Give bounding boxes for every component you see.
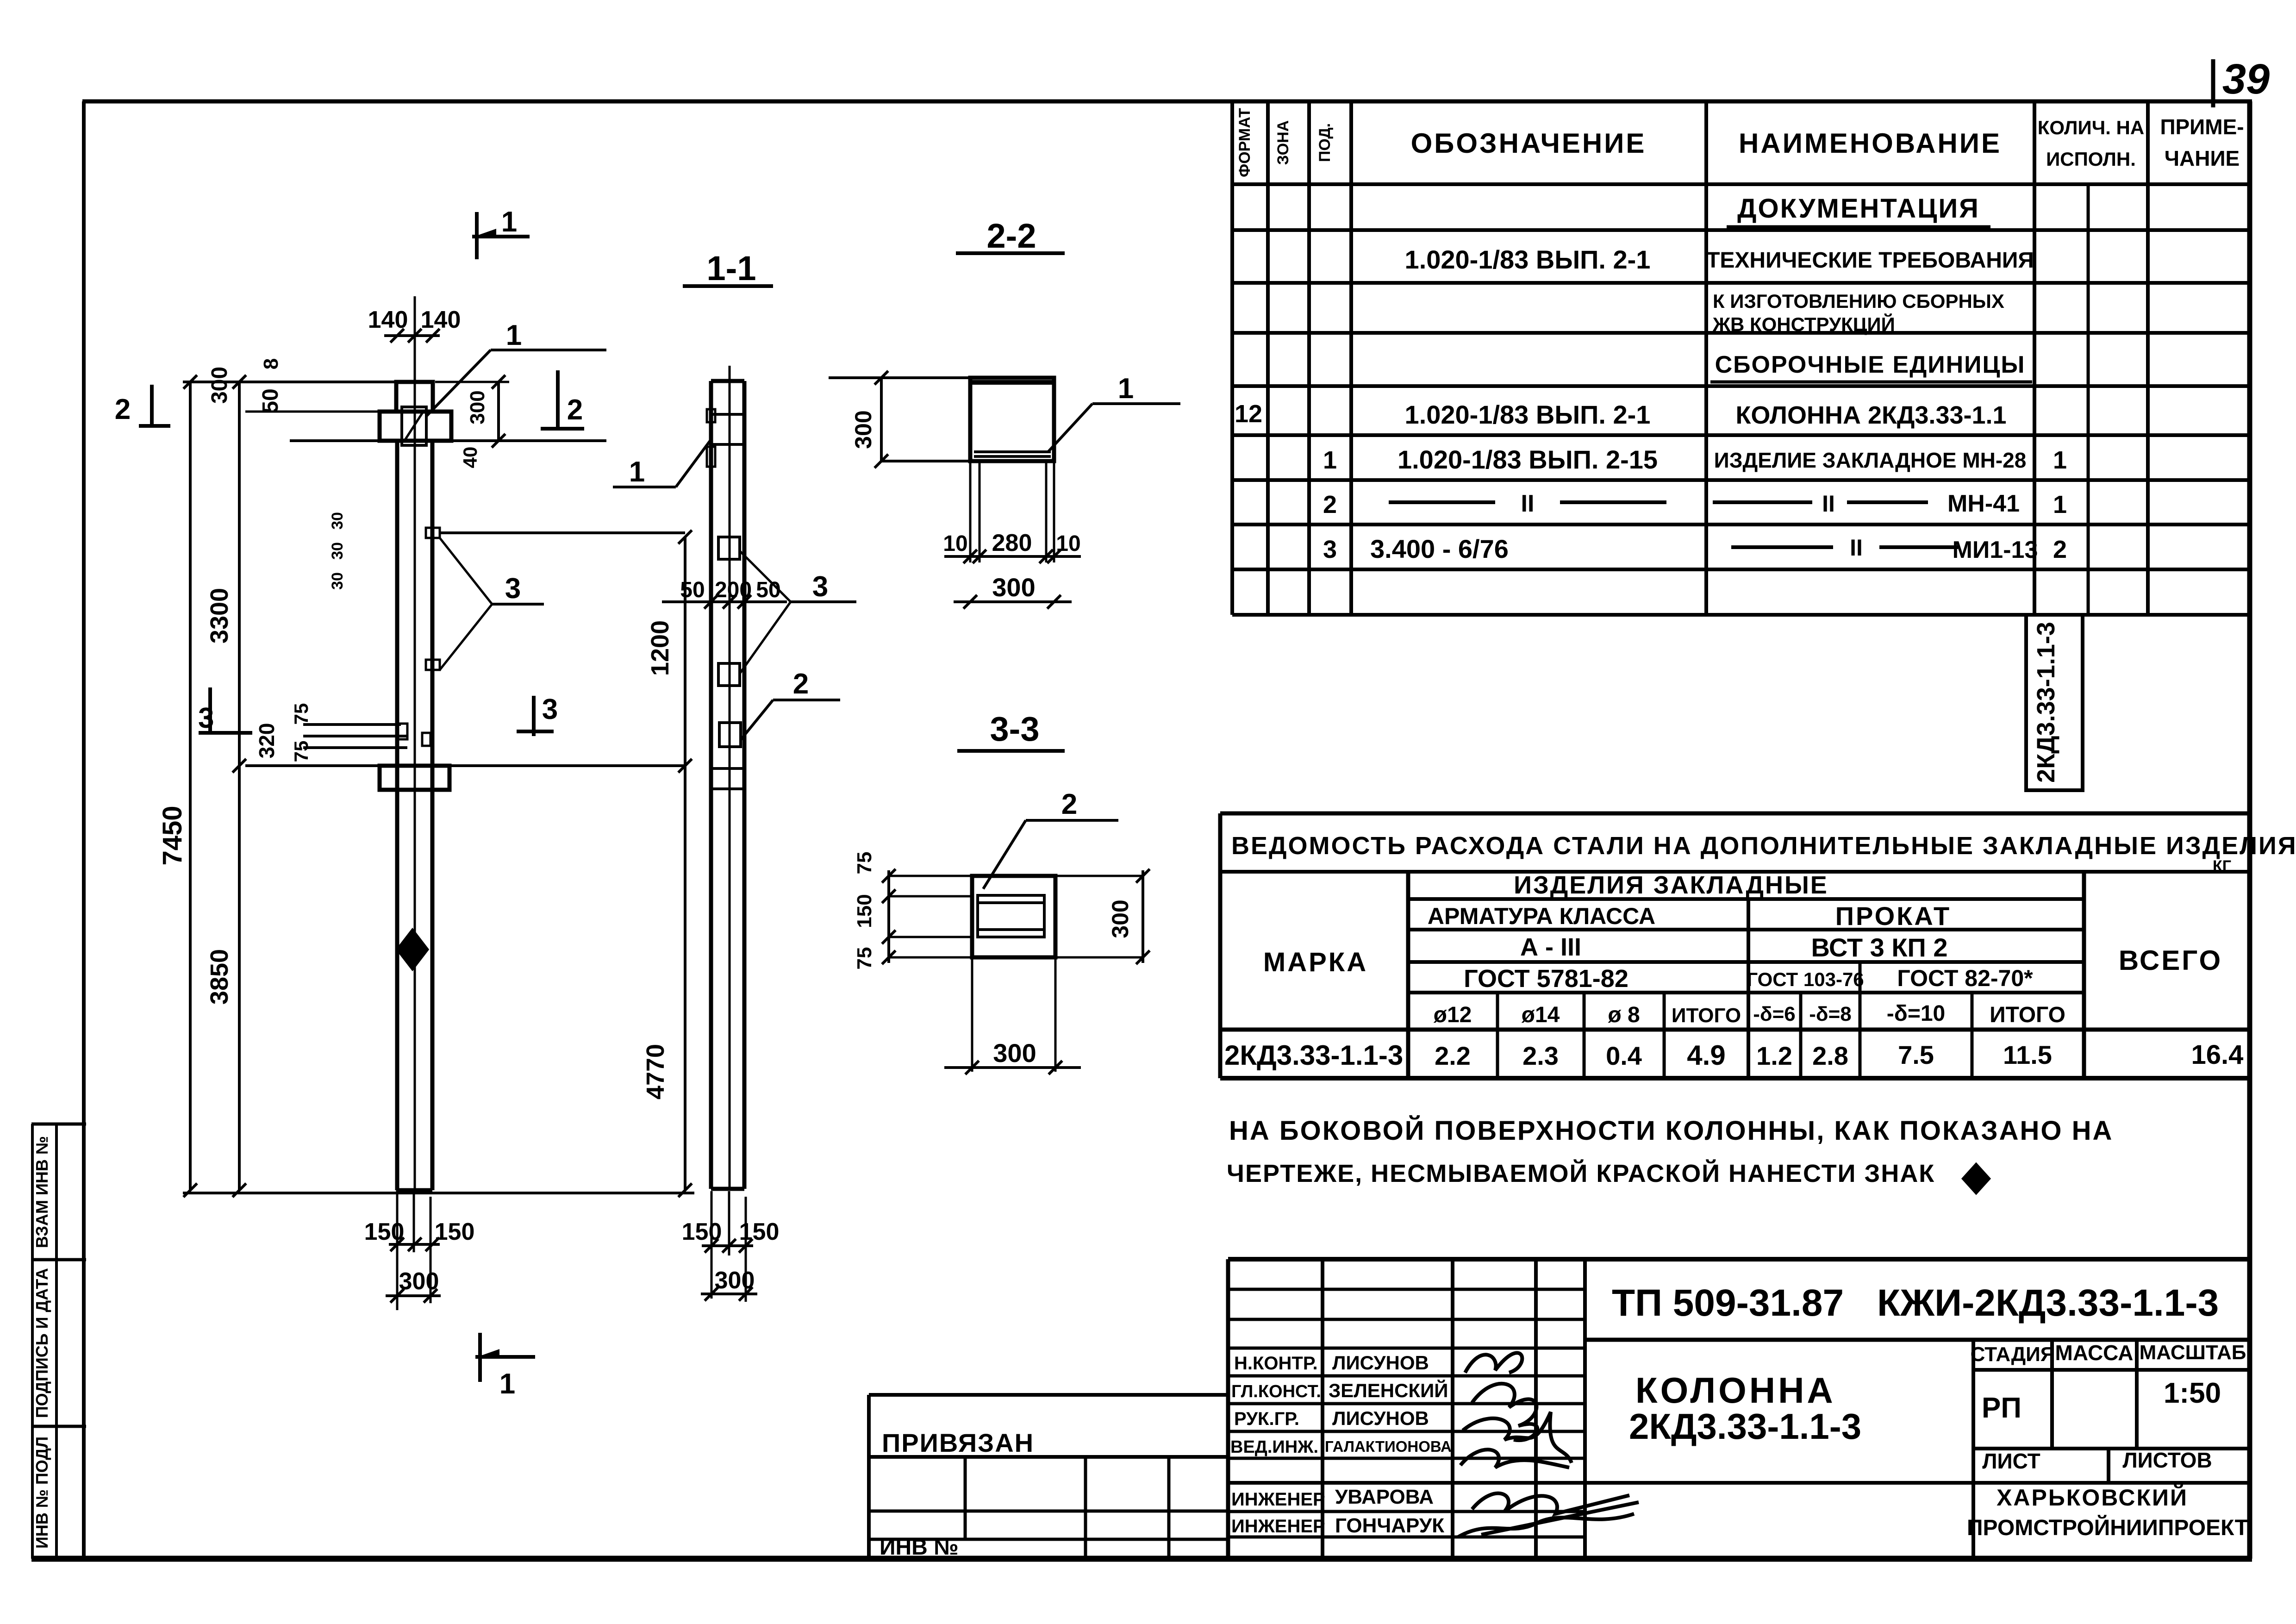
svg-text:7450: 7450 xyxy=(157,806,187,865)
svg-text:ИНЖЕНЕР: ИНЖЕНЕР xyxy=(1231,1516,1325,1537)
svg-text:3850: 3850 xyxy=(206,949,233,1005)
svg-text:II: II xyxy=(1822,491,1835,517)
svg-text:СБОРОЧНЫЕ ЕДИНИЦЫ: СБОРОЧНЫЕ ЕДИНИЦЫ xyxy=(1715,351,2026,378)
svg-text:50: 50 xyxy=(258,388,283,413)
svg-text:А - III: А - III xyxy=(1520,933,1581,961)
svg-text:ГОНЧАРУК: ГОНЧАРУК xyxy=(1335,1514,1444,1537)
svg-text:ЧАНИЕ: ЧАНИЕ xyxy=(2165,146,2240,170)
svg-text:4.9: 4.9 xyxy=(1687,1040,1725,1071)
svg-text:МАРКА: МАРКА xyxy=(1263,947,1368,977)
svg-text:2: 2 xyxy=(115,394,131,425)
svg-text:300: 300 xyxy=(207,367,232,404)
svg-text:10: 10 xyxy=(1056,531,1080,556)
svg-text:320: 320 xyxy=(255,723,279,759)
svg-text:ЛИСУНОВ: ЛИСУНОВ xyxy=(1332,1352,1429,1374)
svg-text:1: 1 xyxy=(1323,446,1337,474)
svg-text:39: 39 xyxy=(2222,56,2270,103)
svg-text:ПРОКАТ: ПРОКАТ xyxy=(1835,901,1951,931)
svg-text:ПРОМСТРОЙНИИПРОЕКТ: ПРОМСТРОЙНИИПРОЕКТ xyxy=(1967,1515,2248,1540)
svg-text:10: 10 xyxy=(943,531,967,556)
svg-text:-δ=8: -δ=8 xyxy=(1809,1003,1852,1025)
svg-text:1: 1 xyxy=(629,456,645,488)
svg-text:2.3: 2.3 xyxy=(1522,1041,1559,1070)
svg-text:30: 30 xyxy=(329,572,346,590)
svg-text:0.4: 0.4 xyxy=(1606,1041,1642,1070)
svg-text:1: 1 xyxy=(2053,491,2067,518)
svg-text:ИСПОЛН.: ИСПОЛН. xyxy=(2046,148,2136,170)
svg-text:КОЛИЧ. НА: КОЛИЧ. НА xyxy=(2038,117,2144,138)
svg-text:МИ1-13: МИ1-13 xyxy=(1953,537,2038,563)
svg-text:ø12: ø12 xyxy=(1434,1003,1472,1027)
svg-text:2-2: 2-2 xyxy=(987,217,1036,255)
svg-text:НА БОКОВОЙ ПОВЕРХНОСТИ КОЛ: НА БОКОВОЙ ПОВЕРХНОСТИ КОЛОННЫ, КАК ПОКА… xyxy=(1229,1116,2113,1146)
svg-text:4770: 4770 xyxy=(642,1044,669,1099)
svg-text:50: 50 xyxy=(756,578,780,602)
svg-text:2: 2 xyxy=(567,394,583,426)
svg-text:3: 3 xyxy=(198,702,214,734)
svg-text:3: 3 xyxy=(812,571,828,603)
svg-text:МАСШТАБ: МАСШТАБ xyxy=(2140,1341,2246,1364)
svg-text:КОЛОННА 2КД3.33-1.1: КОЛОННА 2КД3.33-1.1 xyxy=(1735,401,2006,429)
svg-text:ЛИСТОВ: ЛИСТОВ xyxy=(2122,1448,2212,1472)
svg-text:150: 150 xyxy=(435,1218,475,1245)
svg-text:ТЕХНИЧЕСКИЕ ТРЕБОВАНИЯ: ТЕХНИЧЕСКИЕ ТРЕБОВАНИЯ xyxy=(1706,248,2034,273)
svg-text:300: 300 xyxy=(993,1038,1036,1068)
svg-text:1: 1 xyxy=(501,206,517,238)
svg-text:300: 300 xyxy=(715,1267,755,1294)
svg-text:К ИЗГОТОВЛЕНИЮ СБОРНЫХ: К ИЗГОТОВЛЕНИЮ СБОРНЫХ xyxy=(1713,290,2004,312)
svg-text:3: 3 xyxy=(542,693,558,725)
svg-text:ПРИВЯЗАН: ПРИВЯЗАН xyxy=(882,1428,1034,1457)
svg-text:ИЗДЕЛИЕ ЗАКЛАДНОЕ МН-28: ИЗДЕЛИЕ ЗАКЛАДНОЕ МН-28 xyxy=(1714,448,2027,472)
svg-text:ПРИМЕ-: ПРИМЕ- xyxy=(2160,115,2244,139)
svg-text:НАИМЕНОВАНИЕ: НАИМЕНОВАНИЕ xyxy=(1739,128,2002,159)
svg-text:3: 3 xyxy=(1323,536,1337,563)
svg-text:ХАРЬКОВСКИЙ: ХАРЬКОВСКИЙ xyxy=(1997,1484,2188,1511)
svg-text:ГЛ.КОНСТ.: ГЛ.КОНСТ. xyxy=(1231,1382,1321,1401)
svg-text:30: 30 xyxy=(329,512,346,530)
svg-text:1:50: 1:50 xyxy=(2164,1377,2221,1409)
svg-text:ИТОГО: ИТОГО xyxy=(1672,1004,1741,1027)
svg-text:ЗЕЛЕНСКИЙ: ЗЕЛЕНСКИЙ xyxy=(1329,1379,1448,1401)
svg-text:-δ=10: -δ=10 xyxy=(1887,1001,1946,1026)
svg-text:ЛИСТ: ЛИСТ xyxy=(1982,1449,2040,1473)
svg-text:3300: 3300 xyxy=(206,588,233,643)
svg-text:СТАДИЯ: СТАДИЯ xyxy=(1971,1343,2055,1366)
svg-text:ВЗАМ ИНВ №: ВЗАМ ИНВ № xyxy=(32,1136,51,1248)
svg-text:КОЛОННА: КОЛОННА xyxy=(1635,1370,1836,1411)
svg-text:МАССА: МАССА xyxy=(2055,1341,2134,1365)
svg-text:2: 2 xyxy=(1061,788,1077,820)
svg-text:ВЕДОМОСТЬ РАСХОДА СТАЛИ НА ДО: ВЕДОМОСТЬ РАСХОДА СТАЛИ НА ДОПОЛНИТЕЛЬНЫ… xyxy=(1231,832,2296,860)
svg-text:-δ=6: -δ=6 xyxy=(1753,1003,1796,1025)
svg-text:75: 75 xyxy=(290,703,312,725)
svg-text:75: 75 xyxy=(853,947,876,970)
svg-text:7.5: 7.5 xyxy=(1898,1040,1934,1069)
svg-text:ГАЛАКТИОНОВА: ГАЛАКТИОНОВА xyxy=(1325,1438,1452,1455)
svg-text:8: 8 xyxy=(260,358,282,369)
svg-text:140: 140 xyxy=(368,306,408,333)
svg-text:ВСЕГО: ВСЕГО xyxy=(2119,945,2222,976)
svg-text:1200: 1200 xyxy=(646,620,674,676)
svg-text:300: 300 xyxy=(399,1268,439,1295)
svg-text:1.020-1/83 ВЫП. 2-1: 1.020-1/83 ВЫП. 2-1 xyxy=(1405,245,1651,274)
svg-text:ø14: ø14 xyxy=(1522,1003,1560,1027)
svg-text:ВЕД.ИНЖ.: ВЕД.ИНЖ. xyxy=(1230,1437,1318,1457)
svg-text:150: 150 xyxy=(739,1218,780,1245)
svg-text:140: 140 xyxy=(421,306,461,333)
svg-text:ТП 509-31.87: ТП 509-31.87 xyxy=(1612,1282,1844,1324)
svg-text:ПОДПИСЬ И ДАТА: ПОДПИСЬ И ДАТА xyxy=(32,1268,51,1418)
svg-text:2: 2 xyxy=(1323,491,1337,518)
svg-text:3: 3 xyxy=(505,573,521,605)
svg-text:ИТОГО: ИТОГО xyxy=(1990,1003,2065,1027)
svg-text:1.020-1/83 ВЫП. 2-1: 1.020-1/83 ВЫП. 2-1 xyxy=(1405,400,1651,429)
svg-text:РУК.ГР.: РУК.ГР. xyxy=(1234,1409,1299,1429)
svg-text:11.5: 11.5 xyxy=(2003,1040,2052,1069)
svg-text:II: II xyxy=(1850,535,1863,561)
svg-text:ø 8: ø 8 xyxy=(1608,1003,1640,1027)
svg-text:ГОСТ 103-76: ГОСТ 103-76 xyxy=(1747,968,1864,990)
svg-text:1: 1 xyxy=(1118,373,1134,405)
svg-text:300: 300 xyxy=(466,390,489,424)
svg-text:ГОСТ 5781-82: ГОСТ 5781-82 xyxy=(1464,965,1628,993)
svg-text:ИНВ №: ИНВ № xyxy=(880,1535,959,1560)
svg-text:2: 2 xyxy=(2053,536,2067,563)
svg-text:1: 1 xyxy=(506,319,522,351)
svg-text:3-3: 3-3 xyxy=(990,710,1040,748)
svg-text:ВСТ 3 КП 2: ВСТ 3 КП 2 xyxy=(1811,933,1948,962)
svg-text:ИНВ № ПОДЛ: ИНВ № ПОДЛ xyxy=(32,1437,51,1549)
svg-text:ИЗДЕЛИЯ ЗАКЛАДНЫЕ: ИЗДЕЛИЯ ЗАКЛАДНЫЕ xyxy=(1514,871,1828,899)
svg-text:ЧЕРТЕЖЕ, НЕСМЫВАЕМОЙ КРАСКОЙ: ЧЕРТЕЖЕ, НЕСМЫВАЕМОЙ КРАСКОЙ НАНЕСТИ ЗНА… xyxy=(1227,1159,1935,1187)
svg-text:1-1: 1-1 xyxy=(707,249,756,287)
svg-text:1: 1 xyxy=(2053,446,2067,474)
svg-text:300: 300 xyxy=(850,410,876,449)
svg-text:ГОСТ 82-70*: ГОСТ 82-70* xyxy=(1897,965,2033,991)
svg-text:2КД3.33-1.1-3: 2КД3.33-1.1-3 xyxy=(1224,1040,1403,1071)
svg-text:300: 300 xyxy=(992,573,1035,602)
svg-text:150: 150 xyxy=(682,1218,722,1245)
svg-text:40: 40 xyxy=(459,447,481,468)
svg-text:II: II xyxy=(1521,490,1535,517)
svg-text:РП: РП xyxy=(1982,1392,2021,1424)
svg-text:ОБОЗНАЧЕНИЕ: ОБОЗНАЧЕНИЕ xyxy=(1411,128,1647,159)
svg-text:200: 200 xyxy=(715,578,752,602)
svg-text:150: 150 xyxy=(853,894,876,928)
svg-text:300: 300 xyxy=(1107,899,1133,938)
svg-text:2КД3.33-1.1-3: 2КД3.33-1.1-3 xyxy=(1629,1406,1861,1447)
svg-text:ЛИСУНОВ: ЛИСУНОВ xyxy=(1332,1407,1429,1429)
svg-text:ДОКУМЕНТАЦИЯ: ДОКУМЕНТАЦИЯ xyxy=(1737,194,1980,224)
svg-text:ЖВ КОНСТРУКЦИЙ: ЖВ КОНСТРУКЦИЙ xyxy=(1712,313,1895,335)
svg-text:1.2: 1.2 xyxy=(1756,1041,1792,1070)
svg-text:2.8: 2.8 xyxy=(1812,1041,1848,1070)
svg-text:50: 50 xyxy=(680,578,705,602)
svg-text:Н.КОНТР.: Н.КОНТР. xyxy=(1234,1353,1318,1374)
svg-text:ФОРМАТ: ФОРМАТ xyxy=(1236,108,1254,177)
svg-text:ЗОНА: ЗОНА xyxy=(1274,120,1292,165)
svg-text:МН-41: МН-41 xyxy=(1947,490,2020,517)
svg-text:16.4: 16.4 xyxy=(2191,1040,2244,1070)
svg-text:2.2: 2.2 xyxy=(1435,1041,1471,1070)
svg-text:КГ: КГ xyxy=(2213,857,2231,875)
svg-text:75: 75 xyxy=(290,741,312,762)
svg-text:1.020-1/83 ВЫП. 2-15: 1.020-1/83 ВЫП. 2-15 xyxy=(1398,445,1658,474)
svg-text:2: 2 xyxy=(793,668,809,700)
svg-text:1: 1 xyxy=(499,1368,515,1400)
svg-text:3.400 - 6/76: 3.400 - 6/76 xyxy=(1370,534,1509,563)
svg-text:75: 75 xyxy=(853,852,876,874)
svg-text:150: 150 xyxy=(364,1218,405,1245)
svg-text:ПОД.: ПОД. xyxy=(1316,123,1334,162)
svg-text:2КД3.33-1.1-3: 2КД3.33-1.1-3 xyxy=(2032,622,2060,783)
svg-text:280: 280 xyxy=(992,530,1032,556)
svg-text:30: 30 xyxy=(329,542,346,560)
svg-text:ИНЖЕНЕР: ИНЖЕНЕР xyxy=(1231,1489,1325,1510)
svg-text:УВАРОВА: УВАРОВА xyxy=(1335,1486,1434,1508)
svg-text:КЖИ-2КД3.33-1.1-3: КЖИ-2КД3.33-1.1-3 xyxy=(1877,1282,2219,1324)
svg-text:12: 12 xyxy=(1235,400,1262,428)
svg-text:АРМАТУРА КЛАССА: АРМАТУРА КЛАССА xyxy=(1428,903,1655,929)
